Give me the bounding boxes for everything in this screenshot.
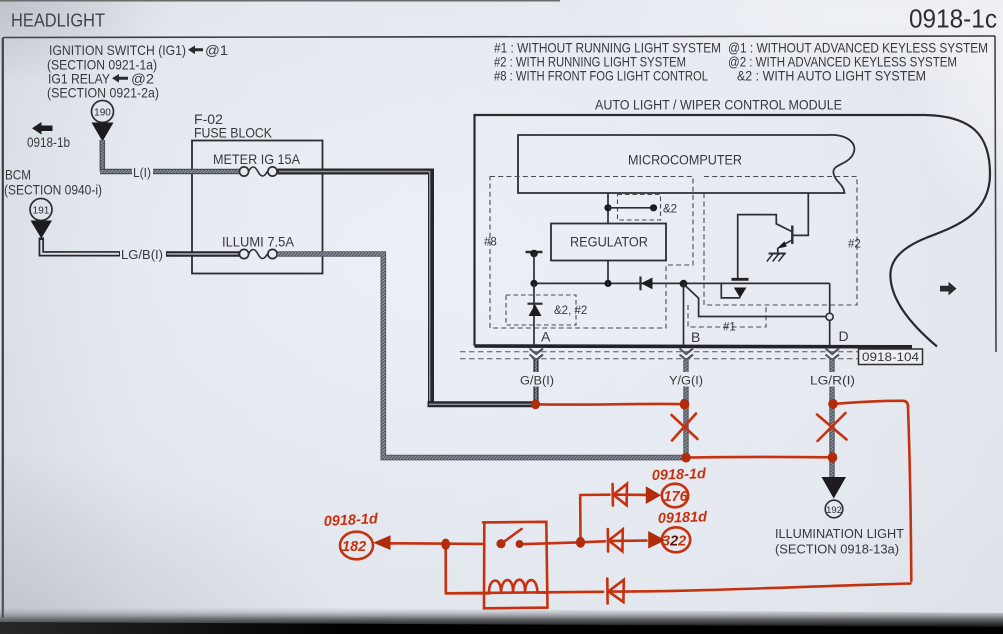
connector pin chevron D [826, 349, 840, 361]
connector circle 192 [825, 500, 843, 518]
svg-text:191: 191 [33, 206, 50, 217]
svg-text:ILLUMINATION LIGHT: ILLUMINATION LIGHT [775, 527, 904, 541]
svg-text:#1: #1 [723, 322, 736, 334]
dashed region #1 [688, 305, 766, 327]
svg-text:0918-1d: 0918-1d [652, 466, 708, 484]
svg-text:REGULATOR: REGULATOR [570, 234, 648, 250]
arrow to @1 [188, 46, 203, 55]
red dot switch left [496, 539, 505, 548]
svg-text:Y/G(I): Y/G(I) [669, 374, 703, 388]
svg-text:METER IG 15A: METER IG 15A [213, 152, 301, 167]
node bus-B [680, 280, 688, 288]
svg-text:&2 : WITH AUTO LIGHT SYSTEM: &2 : WITH AUTO LIGHT SYSTEM [737, 69, 926, 84]
red wire G/B to Y/G [536, 403, 683, 406]
red junction dot Y/G bottom [681, 453, 691, 463]
red diode 176 triangle [614, 484, 628, 506]
svg-text:09181d: 09181d [658, 509, 709, 527]
microcomputer box [518, 135, 854, 193]
svg-text:@2 : WITH ADVANCED KEYLESS SYS: @2 : WITH ADVANCED KEYLESS SYSTEM [728, 55, 957, 70]
svg-text:BCM: BCM [5, 168, 31, 183]
red X on LG/R wire [817, 413, 847, 441]
fuse block box [192, 141, 323, 274]
wire LG/B(I) hatched after fuse, down, and across bottom [278, 254, 685, 458]
red diode 322 triangle [609, 529, 623, 551]
transistor Q1 base lead [738, 215, 792, 278]
red wire to 182 [389, 542, 483, 545]
red diode bottom triangle [609, 580, 624, 602]
photo edge dark hairline top [0, 0, 560, 2]
svg-text:@2: @2 [131, 72, 154, 87]
red switch blade [502, 529, 522, 544]
svg-text:176: 176 [664, 489, 689, 505]
svg-text:0918-1c: 0918-1c [909, 4, 997, 34]
bottom dark band [0, 606, 1003, 634]
red junction dot G/B [531, 399, 540, 409]
arrow to @2 [112, 74, 128, 83]
svg-text:@1 : WITHOUT ADVANCED KEYLESS: @1 : WITHOUT ADVANCED KEYLESS SYSTEM [728, 41, 988, 56]
svg-text:IG1 RELAY: IG1 RELAY [48, 72, 110, 87]
svg-text:ILLUMI 7.5A: ILLUMI 7.5A [222, 235, 295, 250]
internal bus wire [534, 282, 830, 284]
module bottom thick line [475, 344, 913, 348]
ground symbol [769, 253, 786, 255]
diagram border top [3, 36, 995, 38]
down arrow into contact [734, 288, 747, 299]
red junction dot LG/R bottom [828, 452, 838, 462]
red junction dot Y/G top [680, 399, 690, 410]
wire Y/G(I) stub [683, 360, 688, 373]
diode D1 on bus [639, 277, 641, 291]
connector pin chevron A [530, 349, 544, 361]
wire LG/R(I) stub [829, 360, 834, 373]
handwritten 0918-1d above 182 [323, 466, 708, 555]
svg-text:(SECTION 0921-2a): (SECTION 0921-2a) [47, 86, 159, 101]
svg-text:322: 322 [662, 534, 686, 550]
svg-text:192: 192 [826, 505, 842, 516]
open terminal circle [826, 313, 833, 320]
red diode 176 bar [611, 484, 614, 506]
node bus-regulator [604, 280, 611, 287]
transistor Q1 collector [792, 193, 808, 236]
red dot junction1 [441, 539, 450, 550]
connector pin chevron B [680, 349, 694, 361]
connector triangle 192 [822, 477, 847, 499]
red X on Y/G wire [672, 414, 698, 441]
dashed box &2,#2 [506, 295, 576, 325]
red diode bottom bar [606, 579, 609, 604]
red arrow to 176 [646, 486, 661, 504]
red wire junction2 to diode322 [582, 541, 647, 543]
svg-text:190: 190 [94, 108, 111, 119]
connector circle 191 [30, 199, 52, 221]
svg-text:L(I): L(I) [133, 165, 151, 180]
diagram border right [995, 36, 996, 352]
wire &2 jumper [608, 207, 654, 209]
zener diode &2,#2 on A leg [533, 283, 535, 346]
dashed box &2 [618, 195, 661, 221]
connector dashed rows [460, 352, 858, 359]
red wire LG/R to right rail [833, 401, 908, 406]
red branch up from junction2 [579, 497, 582, 540]
svg-text:#8 : WITH FRONT FOG LIGHT CONT: #8 : WITH FRONT FOG LIGHT CONTROL [494, 69, 708, 84]
red wire to diode176 [580, 493, 646, 496]
label box 0918-104 [859, 349, 923, 365]
wire L(I) horizontal to label [100, 169, 132, 175]
wire B leg down [683, 284, 685, 346]
red circle 176 [662, 484, 688, 508]
red right rail down [908, 406, 911, 581]
svg-text:#2 : WITH RUNNING LIGHT SYSTEM: #2 : WITH RUNNING LIGHT SYSTEM [494, 55, 686, 70]
fuse METER IG 15A symbol [249, 167, 268, 176]
svg-text:(SECTION 0921-1a): (SECTION 0921-1a) [47, 58, 157, 73]
svg-text:182: 182 [342, 539, 366, 555]
svg-text:IGNITION SWITCH (IG1): IGNITION SWITCH (IG1) [49, 43, 186, 58]
wire L(I) label to fuse [153, 169, 240, 175]
wire LG/B(I) label to fuse [166, 251, 240, 256]
svg-text:LG/R(I): LG/R(I) [810, 374, 855, 388]
svg-text:A: A [541, 329, 551, 345]
wire L(I) vertical from 190 [100, 140, 106, 172]
right pointing arrow outside module [940, 282, 957, 296]
red bottom rail [446, 584, 911, 594]
svg-text:@1: @1 [205, 43, 228, 58]
red coil in relay [446, 580, 547, 594]
svg-text:#2: #2 [848, 239, 861, 251]
wire G/B(I) stub [533, 360, 538, 373]
svg-text:0918-1d: 0918-1d [323, 511, 379, 530]
connector triangle 191 [31, 221, 53, 239]
switch contact hook from bus [721, 283, 740, 298]
svg-text:FUSE BLOCK: FUSE BLOCK [194, 126, 273, 141]
fuse ILLUMI 7.5A symbol [249, 250, 268, 259]
svg-text:(SECTION 0918-13a): (SECTION 0918-13a) [775, 543, 899, 557]
arrow 0918-1b [32, 122, 53, 135]
red circle 322 [662, 527, 690, 552]
red vertical dot1 down [444, 545, 447, 593]
node &2 right dot [650, 204, 657, 211]
switch blade from node B [684, 284, 827, 317]
red wire box to junction2 [521, 542, 577, 544]
node bus-A [530, 280, 537, 287]
red lower jumper Y/G to LG/R [687, 456, 831, 459]
svg-text:B: B [691, 329, 700, 345]
svg-text:#8: #8 [484, 237, 497, 249]
red arrow to 182 [373, 535, 390, 550]
connector circle 190 [92, 101, 114, 123]
red diode 322 bar [606, 529, 609, 552]
wire L(I) dark after fuse [278, 172, 537, 405]
module box outline with wavy right edge [475, 115, 991, 347]
diagram border left [2, 38, 4, 619]
capacitor plate element [739, 279, 741, 281]
red junction dot LG/R top [828, 399, 838, 409]
svg-text:D: D [839, 328, 849, 344]
dashed region #8 [490, 177, 693, 329]
dashed region #2 [704, 177, 857, 306]
red arrow to 322 [648, 531, 665, 549]
red dot switch right [516, 540, 524, 548]
red relay box K1 [483, 522, 548, 609]
svg-text:&2, #2: &2, #2 [554, 305, 587, 317]
wire D leg down [829, 320, 831, 346]
wire bus right end down to pin circle [829, 283, 831, 313]
svg-text:HEADLIGHT: HEADLIGHT [11, 11, 105, 31]
regulator U1 box [551, 224, 666, 261]
connector triangle 190 [92, 123, 114, 142]
transistor Q1 base bar [791, 226, 793, 245]
transistor Q1 emitter with arrow [780, 240, 792, 247]
svg-text:AUTO LIGHT / WIPER CONTROL MOD: AUTO LIGHT / WIPER CONTROL MODULE [595, 98, 842, 113]
terminal stub above bus [526, 251, 543, 253]
svg-text:(SECTION 0940-i): (SECTION 0940-i) [4, 183, 102, 198]
red dot junction2 [576, 537, 585, 548]
svg-text:MICROCOMPUTER: MICROCOMPUTER [628, 152, 742, 168]
svg-text:#1 : WITHOUT RUNNING LIGHT SYS: #1 : WITHOUT RUNNING LIGHT SYSTEM [494, 41, 721, 56]
red circle 182 [340, 532, 373, 560]
svg-text:LG/B(I): LG/B(I) [121, 247, 163, 262]
page margin brightening top-right [0, 0, 1, 1]
wire LG/B(I) from 191 [41, 238, 120, 254]
wire micro to regulator [607, 193, 609, 224]
node &2 left dot [604, 204, 611, 211]
svg-text:0918-1b: 0918-1b [27, 135, 70, 150]
svg-text:&2: &2 [663, 204, 677, 216]
svg-text:G/B(I): G/B(I) [520, 374, 554, 388]
wire regulator to bus [607, 261, 609, 284]
svg-text:0918-104: 0918-104 [862, 350, 919, 364]
